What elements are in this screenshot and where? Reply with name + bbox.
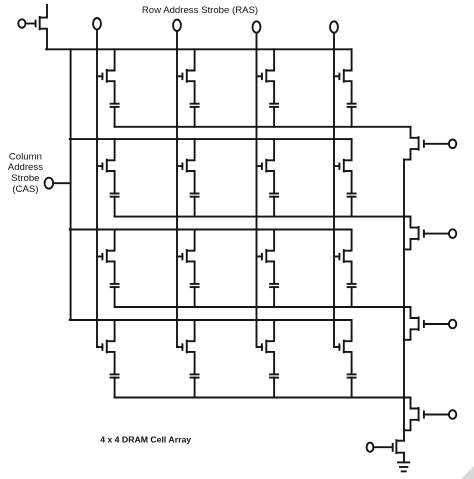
terminal circle: column select 1 [449, 140, 456, 149]
wire: column select chain (right vertical bus) [403, 160, 405, 441]
wire: word line WL4 (vertical) [333, 33, 335, 347]
transistor M32 (cell row 3 col 2) [177, 230, 195, 284]
terminal circle: RAS word line 3 [253, 21, 261, 32]
wire: row 2 bit rail [70, 138, 352, 140]
wire: word line WL1 (vertical) [96, 29, 98, 347]
capacitor C14 (cell row 1 col 4) [348, 104, 356, 127]
capacitor C42 (cell row 4 col 2) [191, 374, 199, 397]
capacitor C13 (cell row 1 col 3) [270, 104, 278, 127]
capacitor C31 (cell row 3 col 1) [111, 284, 119, 307]
transistor Q1 (row driver, top-left) [36, 5, 47, 49]
transistor column select Q5 (row 4, right edge) [404, 398, 449, 431]
terminal circle: RAS word line 2 [173, 20, 181, 31]
transistor M11 (cell row 1 col 1) [97, 49, 115, 103]
terminal circle: column select 2 [449, 229, 456, 238]
wire: row 2 storage plate rail [115, 216, 411, 218]
capacitor C23 (cell row 2 col 3) [270, 194, 278, 217]
transistor column select Q4 (row 3, right edge) [404, 307, 449, 340]
wire: word line WL3 (vertical) [256, 33, 258, 347]
svg-text:Row Address Strobe (RAS): Row Address Strobe (RAS) [142, 5, 258, 16]
capacitor C44 (cell row 4 col 4) [348, 374, 356, 397]
capacitor C22 (cell row 2 col 2) [191, 194, 199, 217]
capacitor C41 (cell row 4 col 1) [111, 374, 119, 397]
transistor M34 (cell row 3 col 4) [334, 230, 352, 284]
wire: row 3 storage plate rail [115, 306, 411, 308]
transistor M12 (cell row 1 col 2) [177, 49, 195, 103]
transistor column select Q2 (row 1, right edge) [404, 127, 449, 160]
wire: row 4 bit rail [70, 319, 352, 321]
terminal circle: RAS word line 1 [93, 18, 101, 29]
transistor M14 (cell row 1 col 4) [334, 49, 352, 103]
capacitor C21 (cell row 2 col 1) [111, 194, 119, 217]
wire: CAS vertical bus [70, 49, 72, 320]
terminal circle: sense enable input [367, 443, 374, 452]
capacitor C12 (cell row 1 col 2) [191, 104, 199, 127]
transistor M24 (cell row 2 col 4) [334, 139, 352, 193]
transistor M22 (cell row 2 col 2) [177, 139, 195, 193]
transistor M31 (cell row 3 col 1) [97, 230, 115, 284]
terminal circle: RAS word line 4 [330, 21, 338, 32]
transistor M43 (cell row 4 col 3) [257, 320, 275, 374]
transistor M23 (cell row 2 col 3) [257, 139, 275, 193]
transistor M42 (cell row 4 col 2) [177, 320, 195, 374]
svg-text:ColumnAddressStrobe(CAS): ColumnAddressStrobe(CAS) [8, 151, 43, 194]
transistor M13 (cell row 1 col 3) [257, 49, 275, 103]
capacitor C32 (cell row 3 col 2) [191, 284, 199, 307]
transistor M33 (cell row 3 col 3) [257, 230, 275, 284]
capacitor C24 (cell row 2 col 4) [348, 194, 356, 217]
terminal circle: column select 3 [449, 320, 456, 329]
wire: RAS driver gate lead [26, 23, 35, 25]
terminal circle: RAS driver gate input [18, 19, 25, 27]
transistor M44 (cell row 4 col 4) [334, 320, 352, 374]
wire: row 1 storage plate rail [115, 126, 411, 128]
capacitor C33 (cell row 3 col 3) [270, 284, 278, 307]
svg-text:4 x 4 DRAM Cell Array: 4 x 4 DRAM Cell Array [100, 435, 191, 445]
wire: row 3 bit rail [70, 229, 352, 231]
wire: word line WL2 (vertical) [176, 31, 178, 347]
transistor M21 (cell row 2 col 1) [97, 139, 115, 193]
wire: row 4 storage plate rail [115, 397, 411, 399]
transistor Q6 (sense/ground, bottom right) [393, 440, 404, 461]
wire: sense gate lead [373, 446, 392, 448]
ground [398, 462, 409, 471]
capacitor C43 (cell row 4 col 3) [270, 374, 278, 397]
capacitor C34 (cell row 3 col 4) [348, 284, 356, 307]
wire: CAS lead [53, 182, 69, 184]
wire: row 1 bit rail [46, 48, 352, 50]
terminal circle: CAS input [45, 178, 54, 189]
transistor M41 (cell row 4 col 1) [97, 320, 115, 374]
corner artifact (gray blob bottom-right) [461, 466, 474, 479]
transistor column select Q3 (row 2, right edge) [404, 217, 449, 250]
terminal circle: column select 4 [449, 410, 456, 419]
capacitor C11 (cell row 1 col 1) [111, 104, 119, 127]
